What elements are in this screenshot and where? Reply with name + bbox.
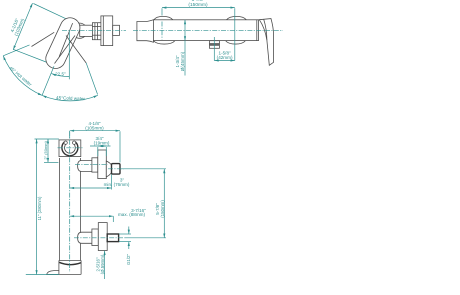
valve body xyxy=(153,20,258,41)
svg-text:max. (88mm): max. (88mm) xyxy=(118,212,146,217)
teal extension of right boundary to arc xyxy=(86,63,97,95)
dim text 4-1/16 (103mm) xyxy=(9,15,25,36)
holder hook left xyxy=(64,141,67,144)
dim text 1-3/4 (45mm) xyxy=(175,51,185,71)
svg-text:(105mm): (105mm) xyxy=(85,126,104,131)
arc 45deg hot water xyxy=(3,56,42,96)
upper arm escutcheon xyxy=(98,150,107,179)
dim G1/2 arrow top xyxy=(128,227,130,235)
upper arm collar xyxy=(92,158,98,172)
hump top right xyxy=(227,16,247,19)
svg-text:(42mm): (42mm) xyxy=(217,55,233,60)
handle blade crease xyxy=(264,19,267,40)
top-right centerline xyxy=(133,29,283,31)
upper outlet stub xyxy=(112,164,121,175)
teal extension lever axis to arc xyxy=(42,66,54,95)
neck cylinder xyxy=(80,25,93,36)
flare sides xyxy=(58,261,60,275)
dim 4-1/16 extension line lower xyxy=(13,49,48,63)
lower arm escutcheon xyxy=(98,223,107,251)
hump top left xyxy=(154,16,173,19)
bonnet collar facet lines xyxy=(94,23,96,40)
flare belt curve xyxy=(59,262,81,264)
dim 3/4 arrows xyxy=(98,145,107,147)
dim 4-1/16 extension line upper xyxy=(33,4,68,20)
vertical reference line below hub xyxy=(68,31,70,80)
dim 4-1/16 dimension line xyxy=(13,3,32,50)
svg-text:45°Cold water: 45°Cold water xyxy=(56,95,86,101)
bonnet collar xyxy=(92,23,101,40)
dim 1-5/8 42mm line xyxy=(214,60,235,62)
outlet center mark xyxy=(213,37,215,61)
svg-text:(Ø.59mm): (Ø.59mm) xyxy=(100,254,105,274)
dim 3-7/16 max ext xyxy=(112,216,114,222)
dim 5-7/8 150mm ext left xyxy=(161,8,163,15)
union center mark left xyxy=(161,22,163,40)
svg-text:2" (50mm): 2" (50mm) xyxy=(43,140,48,159)
svg-text:min. (76mm): min. (76mm) xyxy=(104,182,130,187)
dim 11in bottom ext xyxy=(26,274,59,276)
dim 3/4 dimension line xyxy=(90,145,111,147)
handle blade side view xyxy=(259,19,273,66)
dim text 2-5/16 (59mm) xyxy=(95,254,105,274)
shower holder bracket xyxy=(59,140,81,157)
svg-text:Ø(45mm): Ø(45mm) xyxy=(180,51,185,71)
outlet nut xyxy=(210,41,220,49)
dim 3 min dimension line xyxy=(70,187,112,189)
handle lever capsule xyxy=(43,15,84,72)
upper outlet elbow neck xyxy=(106,161,111,177)
upper arm clamp xyxy=(78,160,92,171)
wall foot top xyxy=(47,271,60,275)
flare step xyxy=(59,260,81,262)
dim 11in dimension line xyxy=(36,139,38,275)
dim 2in top ext xyxy=(35,138,59,140)
lower arm collar xyxy=(92,229,98,246)
phantom line lever axis xyxy=(55,36,76,64)
outlet nut bands xyxy=(210,43,220,45)
handle hub base circle xyxy=(72,23,87,38)
riser tube centerline xyxy=(69,131,71,272)
dim G1/2 ext lines xyxy=(119,233,131,235)
dim 4-1/8 ext right xyxy=(119,131,121,162)
dim text 5-7/8 (150mm) vertical xyxy=(155,200,165,218)
dim 150mm vertical ext top xyxy=(121,168,166,170)
holder center cross horizontal xyxy=(58,147,83,149)
lower arm centerline xyxy=(74,237,125,239)
bottom base line xyxy=(46,273,81,275)
dim 1-3/4 dia45 line xyxy=(184,20,186,41)
dim 4-1/8 dimension line xyxy=(70,130,120,132)
upper arm centerline xyxy=(75,163,108,165)
dim 3/4 ext lines xyxy=(97,147,99,156)
dim 150mm vertical ext bottom xyxy=(125,237,166,239)
svg-text:11" (280mm): 11" (280mm) xyxy=(37,196,42,220)
holder hook right xyxy=(73,141,76,144)
svg-text:22.5°: 22.5° xyxy=(55,72,66,77)
lower supply stub xyxy=(107,234,118,242)
phantom line hot limit xyxy=(32,32,55,46)
holder C ring inner xyxy=(64,144,75,153)
dim 2in dimension line xyxy=(47,139,49,162)
holder C ring outer xyxy=(62,142,78,156)
wall supply stub xyxy=(113,25,120,35)
dim 3-7/16 max dimension line xyxy=(70,215,114,217)
leader 2-5/16 xyxy=(104,251,106,279)
arc 45deg cold water xyxy=(42,95,98,101)
escutcheon plate inner line xyxy=(102,16,104,46)
dim G1/2 arrow bottom xyxy=(128,242,130,249)
dim text 11 (280mm) xyxy=(37,196,42,220)
lower arm clamp xyxy=(78,232,92,243)
escutcheon plate front view xyxy=(101,16,113,46)
dim 5-7/8 150mm ext right / union center mark right xyxy=(234,8,236,60)
upper stub centerline xyxy=(108,168,124,170)
riser tube xyxy=(58,158,60,261)
svg-text:(150mm): (150mm) xyxy=(188,2,208,8)
dim 150mm dimension line xyxy=(162,7,235,9)
arc 22.5deg xyxy=(52,74,70,77)
svg-text:(19mm): (19mm) xyxy=(94,141,110,146)
teal radial 67.5deg hot limit xyxy=(3,45,29,56)
dim text G1/2 xyxy=(126,254,131,266)
svg-text:G1/2": G1/2" xyxy=(126,254,131,266)
phantom line cold limit xyxy=(66,36,86,64)
dim text 2 (50mm) xyxy=(43,140,48,159)
dim 2in bottom ext xyxy=(44,161,58,163)
dim 4-1/8 ext left xyxy=(69,131,71,138)
dim 3 min ext xyxy=(110,175,112,190)
top-left view centerline xyxy=(62,30,126,32)
wall union flange left xyxy=(137,20,154,43)
hump bottom right xyxy=(226,41,246,44)
hump bottom left xyxy=(153,41,175,44)
body end cap line xyxy=(256,20,258,41)
dim 150mm vertical dimension line xyxy=(163,169,165,238)
svg-text:(150mm): (150mm) xyxy=(160,200,165,218)
